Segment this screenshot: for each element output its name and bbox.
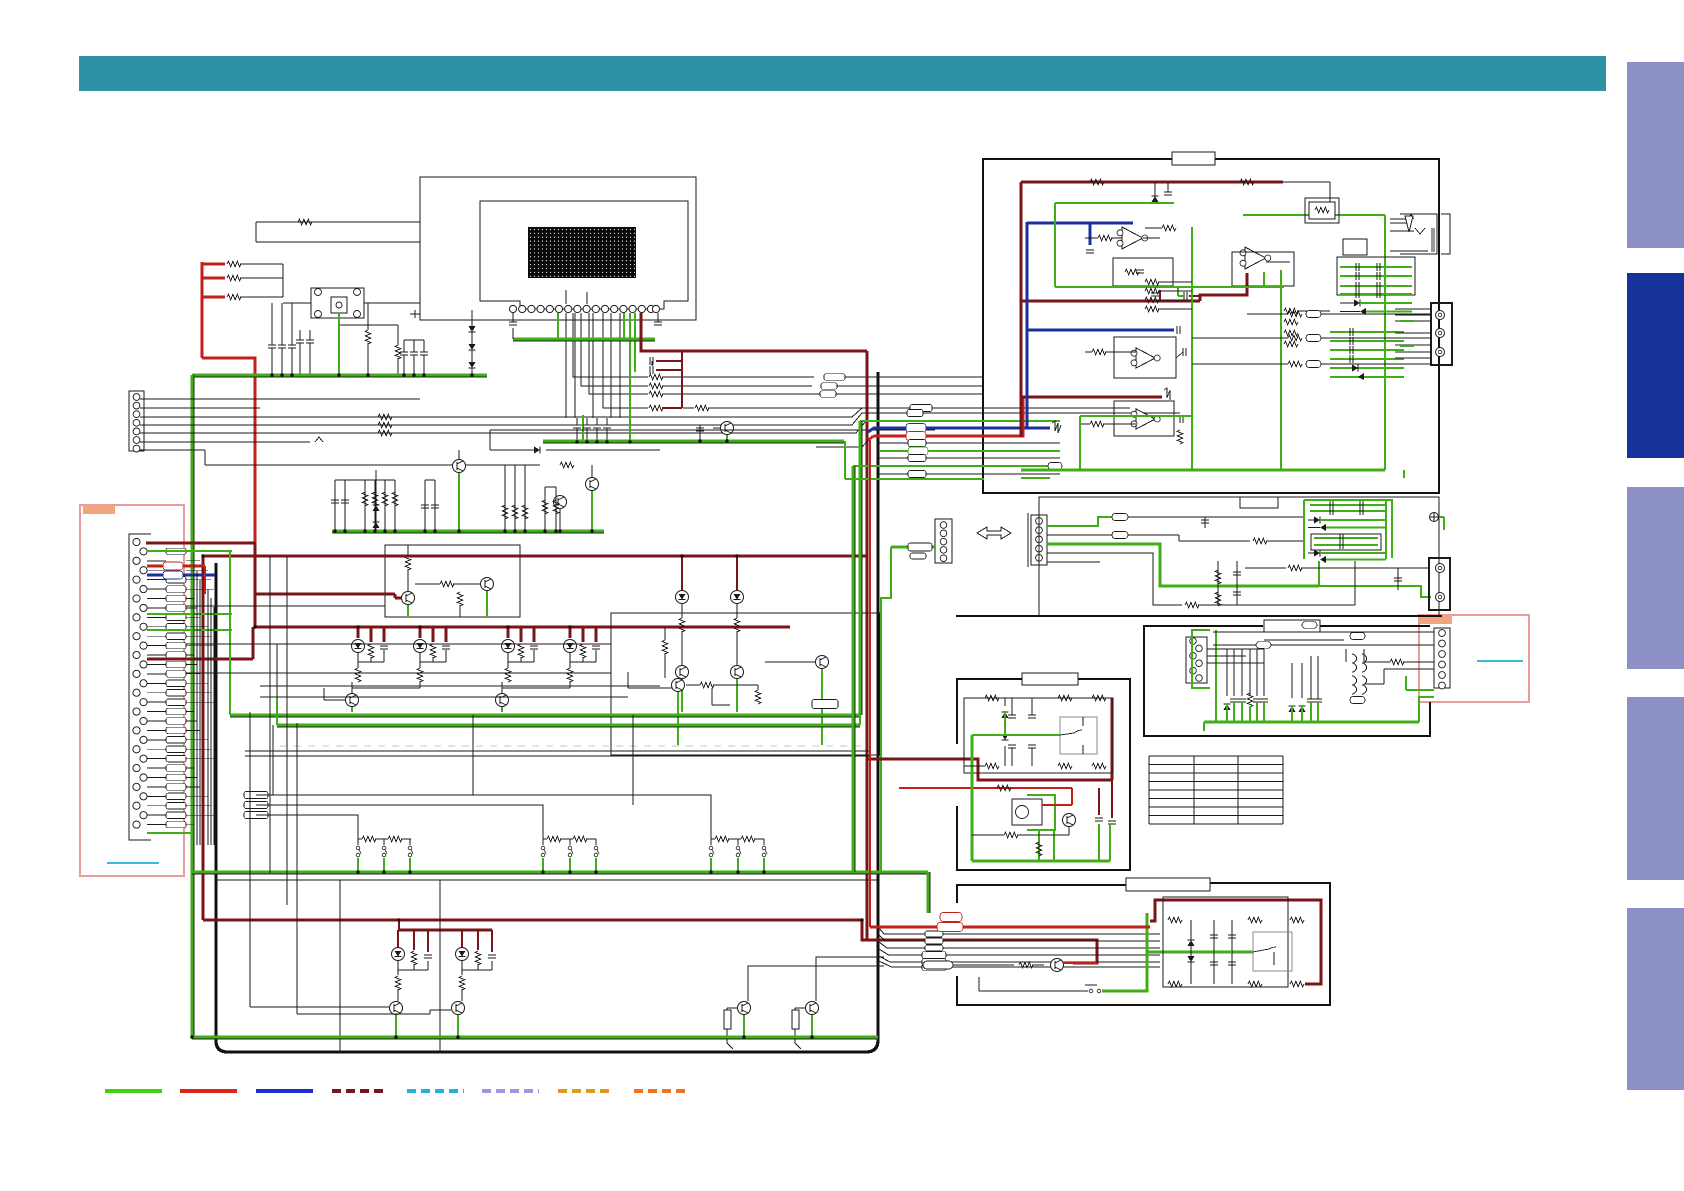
bottom black routing bbox=[249, 712, 251, 1007]
green risers to rails bbox=[229, 551, 231, 715]
cap bank box1 bbox=[1337, 257, 1415, 295]
psu caps bbox=[1008, 714, 1016, 716]
sidebar tab 1 bbox=[1627, 62, 1684, 248]
transistor Q604 bbox=[402, 592, 415, 605]
transistors under LED cluster bbox=[346, 694, 359, 707]
blue stub on B1 bbox=[1089, 223, 1092, 245]
legend solid blue wire bbox=[256, 1089, 313, 1093]
CN601 fanout labels and wires bbox=[147, 550, 166, 552]
motor driver transistor bbox=[1051, 959, 1064, 972]
green cap bank mid bbox=[1304, 500, 1392, 558]
transistor Q603 bbox=[554, 496, 567, 509]
mid band label bbox=[1240, 497, 1278, 508]
transistor Q605 bbox=[481, 578, 494, 591]
legend dashed amber wire bbox=[558, 1089, 614, 1093]
red feed elbow bbox=[201, 262, 204, 358]
green trunk y531 bbox=[332, 532, 604, 534]
green bottom inside block bbox=[1021, 477, 1050, 479]
red vertical riser bbox=[204, 566, 206, 594]
usb green trunk bbox=[1204, 721, 1419, 724]
switch row bottom bbox=[979, 990, 1088, 992]
right top block label bbox=[1172, 152, 1215, 165]
black row y443 bbox=[879, 442, 1060, 444]
red trunk y788 bbox=[899, 787, 1072, 789]
wires to rca top bbox=[1395, 308, 1431, 310]
dark red trunk into power block bbox=[867, 759, 1112, 780]
inter-board arrow bbox=[977, 527, 1011, 539]
blue wire B1 bbox=[868, 428, 1050, 432]
net ovals right rows bbox=[1288, 311, 1302, 317]
switch rows bbox=[356, 846, 360, 850]
dark red stub cap bbox=[1159, 290, 1161, 300]
dark red vertical x682 bbox=[681, 351, 683, 408]
cap pairs bbox=[1213, 920, 1215, 984]
motor wire bbox=[925, 964, 952, 966]
green trunk y441 bbox=[543, 442, 844, 444]
cap left of pins bbox=[512, 313, 514, 322]
fanout verticals bundle bbox=[186, 560, 200, 562]
black rows y686 y697 bbox=[260, 685, 660, 687]
psu switch box bbox=[1060, 717, 1097, 754]
green pin wires bbox=[147, 550, 232, 552]
green row y479 bbox=[845, 478, 984, 480]
legend dashed dark red wire bbox=[332, 1089, 388, 1093]
usb block outline bbox=[1144, 626, 1430, 736]
connector CN901 bbox=[1027, 513, 1029, 567]
psu resistor row bottom bbox=[985, 763, 999, 769]
switch row resistors bbox=[362, 836, 376, 842]
diode cap at y182 bbox=[1154, 182, 1156, 196]
right top block outline bbox=[983, 159, 1439, 493]
dark red row y300 bbox=[1021, 300, 1200, 303]
blue vertical x1027 bbox=[1026, 222, 1029, 429]
usb data line drops bbox=[1226, 649, 1228, 696]
psu red wires bbox=[1071, 788, 1073, 805]
misc caps right col x1404 bbox=[1403, 470, 1405, 478]
green rail risers right bbox=[859, 715, 861, 725]
green bottom rail bbox=[192, 1038, 878, 1040]
dark red vertical x1021 bbox=[1020, 182, 1023, 437]
psu transistor bbox=[1063, 814, 1076, 827]
label boxes right block bbox=[1309, 202, 1335, 219]
diode D604 bbox=[534, 447, 540, 454]
dark red trunk y920 bbox=[203, 919, 862, 922]
resistor R601-R603 rows bbox=[202, 263, 225, 266]
connector CN602 7pin bbox=[129, 391, 144, 451]
row5 bbox=[1047, 561, 1100, 563]
resistor ladder x1288 bbox=[1284, 308, 1298, 314]
green into CN603 bbox=[891, 546, 935, 549]
cap cluster under remote bbox=[271, 303, 273, 345]
cyan underline left bbox=[107, 862, 159, 864]
caps under display bbox=[573, 424, 581, 426]
green drop from display bbox=[629, 313, 631, 442]
red wire R1 bbox=[868, 397, 1023, 440]
caps row x404-424 bbox=[403, 340, 405, 352]
row3 green path bbox=[1047, 544, 1319, 586]
resistor rows bottom right bbox=[1168, 917, 1182, 923]
junction dots bbox=[270, 373, 273, 376]
dark red trunk y556 bbox=[203, 555, 867, 558]
rca jack rear bbox=[1429, 558, 1450, 610]
bundle row y413 bbox=[879, 412, 1180, 414]
transistors bottom bbox=[390, 1002, 403, 1015]
red vertical riser bottom bbox=[869, 440, 871, 927]
bank risers bbox=[1303, 517, 1305, 559]
mid band box bbox=[1039, 497, 1439, 616]
green row y451 bbox=[879, 450, 1060, 452]
legend dashed cyan wire bbox=[407, 1089, 464, 1093]
usb out rows to CN903 bbox=[1213, 644, 1434, 646]
long rows y751 y756 bbox=[245, 750, 870, 752]
green riser x845 bbox=[844, 441, 846, 479]
usb block label bbox=[1264, 620, 1320, 632]
transistor Q601 bbox=[453, 460, 466, 473]
display data rows bbox=[573, 313, 648, 377]
legend dashed orange wire bbox=[634, 1089, 690, 1093]
rca block top bbox=[1431, 303, 1452, 365]
green short trunk y339 bbox=[513, 340, 655, 342]
dark red vertical x867 bbox=[866, 351, 869, 940]
coil out wires bbox=[1364, 661, 1390, 663]
chassis ground symbol bbox=[1430, 513, 1439, 522]
mid transistor block bbox=[611, 613, 880, 755]
psu diodes bbox=[1002, 712, 1009, 718]
wires display-left bbox=[256, 221, 420, 223]
sub-board divider line bbox=[956, 615, 1442, 617]
dark red row y397 bbox=[1021, 396, 1162, 399]
CN602 fanout wires bbox=[140, 398, 420, 400]
display pin drop wires bbox=[565, 313, 567, 418]
psu green bottom bbox=[972, 860, 1110, 863]
dark red vertical x255 bbox=[254, 543, 257, 627]
blue pin wire bbox=[147, 574, 163, 577]
dark red row y182 bbox=[1021, 181, 1283, 184]
bundle rows bottom bbox=[879, 928, 1160, 934]
LED cluster 1 bbox=[357, 627, 360, 638]
resistor pair mid bbox=[365, 330, 371, 344]
blue row y330 bbox=[1027, 329, 1174, 332]
row4 black path bbox=[1047, 553, 1182, 605]
green row y466 bbox=[853, 465, 1055, 467]
dark red feed vertical bbox=[202, 556, 205, 920]
inductor label on rails bbox=[812, 700, 838, 709]
row3 green to jack bbox=[1319, 586, 1431, 597]
row2 to label bbox=[1047, 534, 1112, 536]
jack bracket bbox=[1441, 214, 1450, 254]
display module body bbox=[480, 201, 688, 309]
green mesh right block bbox=[1055, 202, 1174, 204]
dark red drop to bus2 bbox=[862, 920, 1097, 963]
teal header bar bbox=[79, 56, 1606, 91]
bundle row y408 bbox=[879, 407, 1130, 409]
green riser x860 bbox=[861, 421, 863, 715]
mid rows from connector bbox=[186, 605, 385, 607]
ferrite coils L901 L902 bbox=[1352, 654, 1357, 672]
long rows to right bundle bbox=[140, 416, 816, 418]
mid caps ladder bbox=[1217, 561, 1219, 605]
dot matrix display DISP1 bbox=[528, 227, 636, 278]
bottom LED bus bbox=[398, 919, 400, 930]
sidebar tab 3 bbox=[1627, 487, 1684, 669]
bottom right block outline bbox=[957, 883, 1330, 1005]
caps right cluster bbox=[504, 465, 506, 531]
caps on trunk right bbox=[544, 487, 546, 531]
psu dark red stubs bbox=[1098, 788, 1100, 815]
black from row182 bbox=[1283, 181, 1330, 183]
inner box bottom right bbox=[1163, 897, 1288, 987]
legend dashed periwinkle wire bbox=[482, 1089, 539, 1093]
sidebar tab 5 bbox=[1627, 908, 1684, 1090]
opamp U901a bbox=[1122, 227, 1143, 249]
cap right of pins bbox=[657, 313, 659, 322]
switch row feeds bbox=[244, 792, 268, 799]
black row y458 bbox=[879, 457, 1060, 459]
connector CN903 to rear bbox=[1434, 628, 1450, 688]
connector CN603 bbox=[935, 519, 952, 563]
cn602 row jogs to bundle bbox=[816, 408, 879, 417]
dark red loop bottom right bbox=[1150, 900, 1321, 984]
display pins bbox=[509, 305, 516, 312]
mid resistor row y568 bbox=[1245, 567, 1286, 569]
signal table grid bbox=[1149, 756, 1283, 824]
connector CN601 31pin bbox=[129, 534, 151, 840]
sub block (audio sw) bbox=[385, 545, 520, 617]
usb connector CN902 bbox=[1186, 637, 1207, 683]
dark red from display pin bbox=[641, 313, 867, 351]
opamp U902a bbox=[1114, 337, 1176, 378]
dark red wire into Q604 bbox=[255, 593, 395, 596]
wires around remote block bbox=[283, 302, 311, 304]
LED pair right bbox=[681, 556, 683, 590]
headphone jack J901 bbox=[1400, 214, 1437, 254]
green trunk y872 bbox=[192, 873, 928, 875]
cap bank box2 bbox=[1330, 331, 1404, 333]
cyan underline right bbox=[1477, 660, 1523, 662]
dark red pin wire y659 bbox=[147, 658, 253, 661]
green row y421 bbox=[860, 420, 1060, 422]
legend solid green wire bbox=[105, 1089, 162, 1093]
power supply block outline bbox=[957, 679, 1130, 870]
blue row y223 bbox=[1027, 222, 1133, 225]
right transistor pair bbox=[738, 1002, 751, 1015]
sidebar tab 2 (active) bbox=[1627, 273, 1684, 458]
pink highlight box right (rear jack) bbox=[1419, 615, 1529, 702]
psu bottom black bbox=[972, 834, 1004, 836]
green elbow into pink box bbox=[1419, 697, 1434, 722]
psu green path bbox=[972, 734, 1060, 736]
diodes D605 D606 bbox=[375, 470, 377, 531]
bundle labels bottom bbox=[925, 931, 943, 937]
main board outline left (thick) bbox=[216, 372, 878, 1052]
display outer frame bbox=[420, 177, 696, 320]
green bottom right bbox=[1102, 913, 1147, 991]
green riser x192 bbox=[193, 375, 195, 1039]
red wire to loop bbox=[870, 926, 1150, 929]
resistor inline y465 bbox=[560, 462, 574, 468]
transistor Q602 bbox=[586, 478, 599, 491]
psu inner box bbox=[964, 698, 1113, 773]
diode rows under bank bbox=[1354, 300, 1360, 307]
resistor bank center bbox=[1145, 279, 1159, 285]
cap bank on green trunk y531 bbox=[334, 480, 336, 531]
bottom right block label bbox=[1126, 878, 1210, 891]
display pin stubs bbox=[565, 290, 567, 304]
diode stack D601 bbox=[471, 310, 473, 375]
coil labels bbox=[1350, 633, 1365, 640]
red pin wire bbox=[147, 565, 163, 568]
usb diode pair 2 bbox=[1289, 706, 1296, 712]
switch box bottom right bbox=[1253, 932, 1292, 971]
power supply block label bbox=[1022, 673, 1078, 685]
opamp U902b bbox=[1114, 401, 1174, 436]
row1 green to label bbox=[1047, 517, 1112, 526]
dark red segment row408 bbox=[662, 407, 682, 409]
green inner loop bbox=[1147, 951, 1253, 954]
opamp U901b bbox=[1245, 247, 1266, 269]
green riser x853 bbox=[854, 466, 856, 872]
green rail pair y715 y725 bbox=[230, 716, 860, 718]
dashed service wire bbox=[280, 745, 866, 747]
row to jack1 bbox=[1392, 567, 1429, 569]
psu resistors top bbox=[985, 695, 999, 701]
sidebar tab 4 bbox=[1627, 697, 1684, 880]
green loop around usb connector bbox=[1192, 630, 1210, 688]
black trunk y880 bbox=[216, 879, 878, 881]
black row y474 bbox=[879, 473, 1060, 475]
pink highlight box left (front panel connector) bbox=[80, 505, 184, 876]
dark red LED bus y627 bbox=[255, 626, 790, 629]
psu regulator IC901 bbox=[1012, 799, 1042, 825]
psu bottom resistor bbox=[1036, 842, 1042, 856]
green pin drops pair bbox=[634, 313, 636, 372]
green trunk y375 bbox=[192, 376, 487, 378]
green drop x558 bbox=[557, 313, 559, 339]
dark red cap stubs bbox=[651, 361, 653, 366]
feed verticals to switch rows bbox=[272, 725, 274, 795]
usb esd diodes bbox=[1224, 704, 1231, 710]
up down diodes bbox=[1190, 920, 1192, 984]
remote sensor block bbox=[311, 288, 364, 318]
dark red pin1 wire bbox=[146, 542, 255, 545]
top rail of cluster bbox=[490, 429, 935, 431]
legend solid red wire bbox=[180, 1089, 237, 1093]
